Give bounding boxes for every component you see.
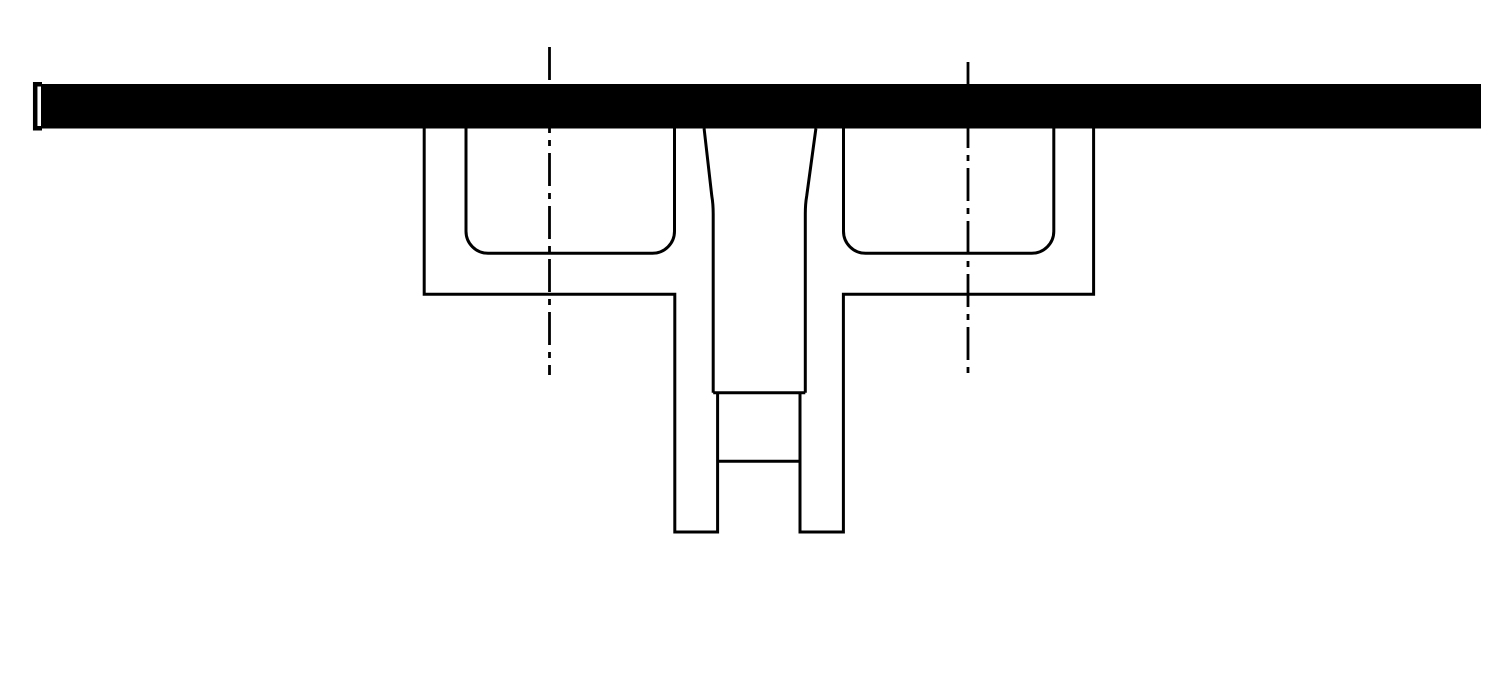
stem bottom shoulder line bbox=[713, 391, 805, 394]
center stem right tapered edge bbox=[805, 129, 816, 393]
right slot pocket (rounded bottom) bbox=[844, 129, 1054, 254]
plate (top flange, section-filled bar) bbox=[41, 84, 1481, 129]
centerline right (dash-dot axis) bbox=[967, 56, 970, 375]
left bracket wall, shelf and left fork leg outer edge bbox=[424, 129, 717, 533]
plate left end cap (break bracket) bbox=[35, 84, 42, 128]
fork crossbar line bbox=[718, 460, 800, 463]
left slot pocket (rounded bottom) bbox=[466, 129, 675, 254]
right fork leg inner edge, bottom cap, right shelf and right bracket wall bbox=[800, 129, 1094, 533]
centerline left (dash-dot axis) bbox=[548, 47, 551, 375]
center stem left tapered edge bbox=[704, 129, 713, 393]
